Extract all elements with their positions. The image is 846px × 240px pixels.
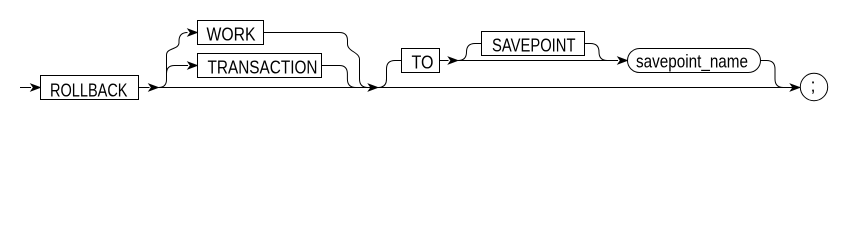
svg-text:SAVEPOINT: SAVEPOINT [492,36,576,56]
terminator circle with semicolon [800,73,827,100]
wire: riser from main line up into TO box [378,61,402,88]
wire: savepoint_name exit drop to main line [761,61,784,88]
svg-text:TO: TO [412,53,434,73]
wire: skip line under SAVEPOINT [458,60,618,62]
arrow on main line after ROLLBACK [149,84,159,91]
wire: WORK exit, jog right, drop to main line [264,33,369,88]
arrow on main line before TO branch [368,84,378,91]
terminal box ROLLBACK [41,76,139,101]
wire: riser up into SAVEPOINT [458,44,482,61]
wire: branch riser up from main line to WORK row (with jog) [159,33,188,88]
wire: TRANSACTION exit drop to main line [322,66,357,88]
arrow into WORK [188,29,198,36]
arrow into ROLLBACK [31,84,41,91]
wire: main skip line (bottom rail) [159,87,801,89]
svg-text:;: ; [810,76,815,96]
svg-text:ROLLBACK: ROLLBACK [50,81,128,101]
wire: after TO on savepoint row [440,60,449,62]
terminal box WORK [198,21,264,45]
wire: peel-off from riser into TRANSACTION row [167,66,189,74]
terminal box TO [402,49,440,73]
svg-text:WORK: WORK [207,25,256,45]
wire: start line into ROLLBACK [20,87,31,89]
arrow after TO [448,57,458,64]
terminal box SAVEPOINT [482,32,585,56]
wire: SAVEPOINT exit drop back to savepoint row [585,44,608,61]
arrow into savepoint_name [618,57,628,64]
arrow into TRANSACTION [188,62,198,69]
svg-text:TRANSACTION: TRANSACTION [208,58,318,78]
wire: after ROLLBACK on main line [139,87,150,89]
svg-text:savepoint_name: savepoint_name [636,52,748,73]
nonterminal pill savepoint_name [628,49,761,73]
arrow into terminator circle [790,84,800,91]
terminal box TRANSACTION [198,54,322,78]
